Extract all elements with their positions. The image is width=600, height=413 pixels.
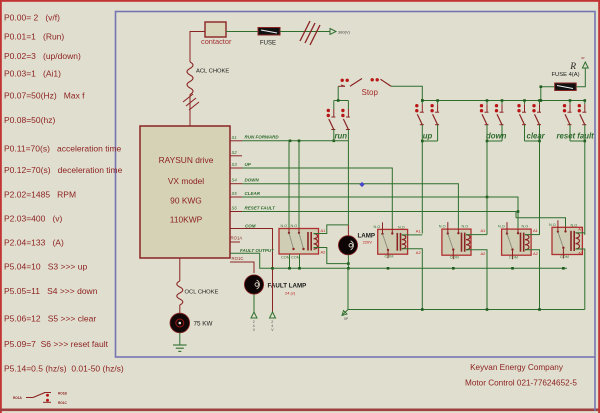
svg-text:S2: S2 [232,150,238,155]
junction [538,99,541,102]
junction [517,210,520,213]
junction [523,99,526,102]
relay RL4 NO pin [517,229,519,234]
reset pair right [578,101,587,125]
junction [289,140,292,143]
svg-text:S6: S6 [232,206,238,211]
svg-text:FAULT OUTPUT: FAULT OUTPUT [240,248,275,253]
junction [538,140,541,143]
wire choke to motor [179,305,181,314]
svg-text:Stop: Stop [362,88,379,97]
svg-text:RO1A: RO1A [231,236,243,241]
outer frame left [0,0,2,413]
svg-text:P0.07=50(Hz) Max f: P0.07=50(Hz) Max f [4,91,85,101]
svg-text:A1: A1 [578,226,584,231]
run top bracket [334,100,349,102]
svg-text:COM: COM [245,224,256,229]
rail top supply [422,100,585,102]
svg-text:COM: COM [281,256,290,260]
relay RL5 NO pin [564,227,566,232]
svg-text:up: up [423,132,433,141]
svg-text:N.O: N.O [549,223,556,227]
junction [298,140,301,143]
wire RL5 A1 [576,232,585,234]
wire fuse2 to R terminal [576,68,585,87]
lamp FAULT LAMP [244,275,263,294]
junction [421,99,424,102]
svg-text:UP: UP [245,162,252,167]
junction [298,267,301,270]
pin S6 [230,211,242,213]
pin COM [230,228,236,230]
clear pair right drop [539,125,541,141]
wire down pair to relay3 A1 [486,141,488,235]
svg-text:clear: clear [527,132,546,141]
relay RL4 [498,222,531,260]
junction [387,267,390,270]
svg-text:P0.01=1 (Run): P0.01=1 (Run) [4,32,64,42]
rail B return [348,309,585,311]
wire contactor to fuse [226,31,258,33]
three-phase marks [183,94,199,110]
down pair top bracket [487,100,502,102]
junction [452,267,455,270]
svg-text:RAYSUN drive: RAYSUN drive [159,155,214,165]
wire motor to ground [179,333,181,345]
relay RL1 coil [308,232,318,251]
down pair bottom bracket [487,140,502,142]
wire S3 UP row to relay2 [242,168,392,229]
reset pair bottom bracket [570,140,585,142]
contactor [201,22,232,46]
svg-text:FUSE 4(A): FUSE 4(A) [552,72,580,78]
push button run left [327,101,336,130]
wire S6 RESET row step [242,212,516,218]
svg-text:P2.03=400 (v): P2.03=400 (v) [4,214,63,224]
svg-text:ACL CHOKE: ACL CHOKE [196,69,229,75]
svg-text:P0.08=50(hz): P0.08=50(hz) [4,115,55,125]
up pair left drop [421,125,423,141]
wire to relay1 contact1 [288,141,290,229]
svg-text:P0.02=3 (up/down): P0.02=3 (up/down) [4,51,81,61]
wire RL4 A2 to rail B [525,250,540,310]
pin S2 [230,155,242,157]
push button run right [341,101,350,130]
run left drop [333,130,335,141]
up pair right drop [437,125,439,141]
junction [538,308,541,311]
wire RL3 A2 to rail B [466,250,487,310]
junction [584,99,587,102]
svg-text:N.O: N.O [291,224,298,228]
svg-text:S1: S1 [232,135,238,140]
svg-text:P0.11=70(s) acceleration tim: P0.11=70(s) acceleration time [4,144,122,154]
wire rail A to rail B [347,268,349,309]
wire stop left to run bracket [337,86,339,100]
VFD drive U1 [140,126,230,258]
junction [421,308,424,311]
marker blue diamond [359,182,364,187]
junction [347,267,350,270]
svg-text:P2.04=133 (A): P2.04=133 (A) [4,237,64,247]
svg-text:380(V): 380(V) [338,30,351,35]
wire fuse to 380V terminal [280,31,330,33]
wire RL2 A2 to rail B [402,249,423,310]
sheet border [116,12,596,358]
wire rail to fuse2 [541,87,555,101]
svg-text:COM: COM [291,256,300,260]
svg-text:0P: 0P [344,317,349,321]
svg-text:DOWN: DOWN [245,178,260,183]
wire reset pair to relay5 A1 [584,141,586,235]
junction [271,267,274,270]
svg-text:P5.04=10 S3 >>> up: P5.04=10 S3 >>> up [4,261,87,271]
relay RL1 [279,229,319,255]
svg-text:RO1C: RO1C [58,401,68,405]
junction [569,99,572,102]
three-phase marks [300,21,320,45]
svg-text:N.O: N.O [439,225,446,229]
junction [421,99,424,102]
svg-text:3P: 3P [581,56,585,60]
svg-text:COM: COM [450,256,459,260]
svg-text:RESET FAULT: RESET FAULT [245,205,277,210]
fuse FUSE [258,28,280,36]
svg-text:down: down [486,132,507,141]
wire S1 RUN FORWARD row [242,140,348,142]
svg-text:COM: COM [560,255,569,259]
outer frame top [0,0,600,2]
svg-text:S5: S5 [232,191,238,196]
relay RL1 contact [298,229,305,269]
down pair left drop [486,125,488,141]
svg-text:VX model: VX model [168,176,204,186]
junction [486,196,489,199]
svg-text:P2.02=1485 RPM: P2.02=1485 RPM [4,190,76,200]
inductor OCL CHOKE [177,281,183,305]
wire COM to rail [236,229,273,269]
svg-text:A2: A2 [533,251,539,256]
svg-text:A2: A2 [321,250,327,255]
wire contactor to ACL choke [190,32,205,63]
svg-text:A1: A1 [533,228,539,233]
push button Stop [338,78,391,86]
junction [337,99,340,102]
ground [173,345,187,351]
sheet border right lower [594,357,596,411]
svg-text:75 KW: 75 KW [194,321,213,328]
clear pair top bracket [525,100,540,102]
wire RL3 A1 [466,234,487,236]
wire RL1 A1 to lamp top [314,225,349,234]
junction [584,140,587,143]
svg-text:OCL CHOKE: OCL CHOKE [185,290,219,296]
wire S5 CLEAR row to relay4 [242,197,518,229]
up pair left [415,101,424,125]
wire RO1C to fault lamp [230,262,254,273]
svg-text:LAMP: LAMP [358,233,376,240]
wire clear pair to relay4 A1 [539,141,541,235]
wire up pair to relay2 A1 [421,141,423,234]
up pair bottom bracket [422,140,437,142]
junction [501,99,504,102]
outer frame right [598,0,600,413]
relay RL3 [439,222,471,260]
motor M1 75KW [170,313,190,333]
pin S4 [230,183,242,185]
svg-text:P0.12=70(s) deceleration tim: P0.12=70(s) deceleration time [4,165,123,175]
svg-text:FAULT LAMP: FAULT LAMP [268,282,307,289]
rail A COM [273,267,568,269]
down pair right drop [501,125,503,141]
wire S4 DOWN row to relay3 [242,184,458,229]
svg-text:S3: S3 [232,162,238,167]
relay RL3 NO pin [457,229,459,234]
svg-text:A2: A2 [578,251,584,256]
down pair left [480,101,489,125]
svg-text:24 (v): 24 (v) [285,291,296,296]
svg-text:CLEAR: CLEAR [245,191,261,196]
svg-text:COM: COM [385,255,394,259]
svg-text:P0.03=1 (Ai1): P0.03=1 (Ai1) [4,69,61,79]
lamp bottom wire [347,255,349,268]
junction [540,85,543,88]
svg-text:A2: A2 [481,251,487,256]
fuse FUSE 4(A) [555,83,577,91]
pin S3 [230,167,242,169]
relay RL1 contact [288,229,295,269]
svg-text:contactor: contactor [201,37,232,46]
svg-text:P0.00= 2 (v/f): P0.00= 2 (v/f) [4,12,60,22]
svg-text:COM: COM [509,256,518,260]
svg-text:RUN FORWARD: RUN FORWARD [245,135,280,140]
svg-text:FUSE: FUSE [260,41,276,47]
svg-text:N.O: N.O [522,225,529,229]
svg-text:reset fault: reset fault [557,132,595,141]
reset pair right drop [584,125,586,141]
clear pair left drop [524,125,526,141]
reset pair left [563,101,572,125]
wire run to lamp [347,141,349,225]
clear pair bottom bracket [525,140,540,142]
svg-text:P5.14=0.5 (hz/s) 0.01-50 (hz/: P5.14=0.5 (hz/s) 0.01-50 (hz/s) [4,363,124,373]
outer frame bottom [0,409,600,412]
wire COM rail to 24V terminal [272,268,274,312]
junction [333,140,336,143]
wire drive to OCL choke [179,258,181,281]
inductor ACL CHOKE [187,62,193,95]
power terminal R [582,62,588,68]
svg-text:S4: S4 [232,178,238,183]
junction [540,99,543,102]
lamp top pin [347,225,349,236]
reset pair left drop [569,125,571,141]
svg-text:P5.06=12 S5 >>> clear: P5.06=12 S5 >>> clear [4,314,96,324]
junction [486,140,489,143]
wire reset row to relay5 [516,218,566,228]
wire RL4 A1 [525,234,540,236]
svg-text:R: R [569,62,576,72]
wire to relay1 contact2 [298,141,300,229]
fault lamp bottom wire [253,294,255,312]
clear pair left [517,101,526,125]
svg-text:N.O: N.O [462,225,469,229]
relay RL2 NO pin [391,229,393,234]
wire stop right to rail [391,86,422,100]
svg-text:A2: A2 [416,250,422,255]
junction [486,308,489,311]
power terminal 0V [342,310,348,316]
relay contact RO1A changeover [13,392,68,406]
junction [347,262,350,265]
svg-text:RO1A: RO1A [13,396,23,400]
junction [486,99,489,102]
pin S1 [230,140,242,142]
wire RL2 A1 [402,234,423,236]
relay RL2 [374,222,408,258]
svg-text:N.O: N.O [398,225,405,229]
svg-text:220V: 220V [363,240,373,245]
power terminal 24V b [270,312,276,318]
svg-text:A1: A1 [416,228,422,233]
pin RO1A stub [230,241,240,243]
wire RL5 A2 to rail B [576,249,585,310]
junction [421,140,424,143]
svg-text:RO1C: RO1C [232,256,244,261]
reset pair top bracket [570,100,585,102]
svg-text:A1: A1 [321,228,327,233]
svg-text:N.O: N.O [498,225,505,229]
svg-text:90 KWG: 90 KWG [170,196,202,206]
junction [288,267,291,270]
svg-text:Keyvan Energy Company: Keyvan Energy Company [470,363,564,372]
power terminal 24V [251,312,257,318]
junction [562,267,565,270]
wire choke to drive [189,95,191,127]
pin S5 [230,196,242,198]
svg-text:110KWP: 110KWP [170,215,203,225]
relay RL5 [549,220,583,259]
svg-text:N.O: N.O [281,224,288,228]
run right drop [347,130,349,141]
up pair top bracket [422,100,437,102]
svg-text:Motor Control 021-77624652-5: Motor Control 021-77624652-5 [465,378,577,387]
down pair right [495,101,504,125]
svg-text:A1: A1 [481,228,487,233]
up pair right [430,101,439,125]
lamp LAMP 220V [338,236,357,255]
wire FAULT OUTPUT [230,253,273,268]
wire RL1 A2 to lamp bottom [314,248,349,264]
junction [511,267,514,270]
svg-text:N.O: N.O [374,225,381,229]
power terminal 380V [330,29,336,35]
svg-text:N.O: N.O [571,223,578,227]
junction [436,99,439,102]
svg-text:run: run [335,132,348,141]
svg-text:RO1B: RO1B [58,392,68,396]
svg-text:P5.05=11 S4 >>> down: P5.05=11 S4 >>> down [4,286,98,296]
clear pair right [532,101,541,125]
svg-text:P5.09=7 S6 >>> reset fault: P5.09=7 S6 >>> reset fault [4,339,109,349]
